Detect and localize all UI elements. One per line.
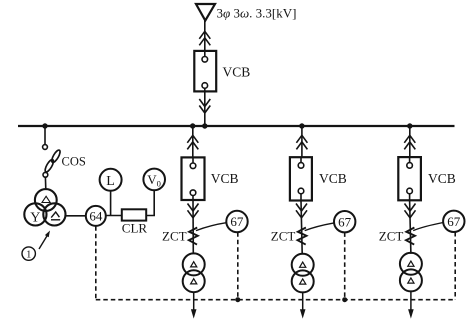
dashed trip bus horizontal (96, 299, 455, 301)
wire incoming line-side (204, 21, 206, 52)
label VCB incoming (223, 65, 251, 80)
wire lamp branch (110, 191, 112, 216)
breaker VCB feeder1 (182, 157, 205, 200)
wire CLR to V0 (146, 190, 154, 215)
wire feeder3 mid (410, 200, 411, 254)
wire left tap down (44, 126, 46, 145)
relay 67 feeder3 (443, 211, 464, 232)
transformer feeder1 (183, 253, 205, 292)
dashed wire relay67 feeder3 (454, 232, 456, 300)
drawout chevrons feeder3 top (404, 135, 415, 149)
wire feeder1 mid (192, 200, 194, 254)
node bus tap feeder1 (190, 123, 195, 128)
drawout chevrons feeder3 bottom (405, 204, 416, 218)
wire feeder1 upper (192, 126, 194, 157)
svg-text:ZCT: ZCT (379, 228, 404, 243)
label ZCT feeder3 (379, 228, 404, 243)
svg-text:VCB: VCB (211, 171, 239, 186)
relay 67 feeder1 (226, 211, 247, 232)
label COS (62, 155, 86, 169)
breaker VCB incoming (194, 51, 216, 92)
svg-text:VCB: VCB (428, 171, 456, 186)
wire 64 to CLR (106, 215, 122, 217)
svg-text:1: 1 (26, 249, 31, 260)
voltmeter V0 (143, 169, 165, 191)
grounding transformer GPT (24, 189, 65, 225)
label ZCT feeder1 (162, 228, 187, 243)
wire feeder2 lower / load arrow (300, 292, 306, 318)
svg-text:COS: COS (62, 155, 86, 169)
dashed wire relay67 feeder1 (237, 232, 239, 300)
transformer feeder3 (400, 253, 422, 292)
svg-text:ZCT: ZCT (162, 228, 187, 243)
drawout chevrons incoming line-side (199, 31, 210, 45)
label VCB feeder1 (211, 171, 239, 186)
svg-text:67: 67 (338, 214, 352, 229)
cutout switch COS (43, 145, 62, 178)
svg-text:3φ 3ω. 3.3[kV]: 3φ 3ω. 3.3[kV] (217, 5, 297, 20)
wire feeder2 upper (301, 126, 303, 157)
drawout chevrons incoming bus-side (199, 99, 210, 113)
wire COS to transformer (44, 177, 46, 189)
wire feeder3 lower / load arrow (408, 291, 414, 318)
node bus tap incoming (202, 123, 207, 128)
wire feeder3 upper (409, 126, 411, 157)
svg-text:L: L (106, 174, 115, 189)
svg-text:CLR: CLR (122, 221, 148, 236)
label VCB feeder3 (428, 171, 456, 186)
svg-text:Y: Y (30, 211, 40, 226)
resistor CLR (122, 209, 146, 220)
drawout chevrons feeder2 top (296, 135, 307, 149)
lamp L (100, 169, 122, 191)
drawout chevrons feeder2 bottom (296, 204, 307, 218)
svg-text:ZCT: ZCT (271, 228, 296, 243)
wire ZCT feeder1 to relay (196, 223, 226, 231)
dashed wire 64 down (95, 226, 97, 300)
wire incoming bus-side (204, 91, 206, 126)
node trip bus feeder2 (342, 297, 347, 302)
label 3phi 3w 3.3kV (217, 5, 297, 20)
wire GPT to 64 (65, 215, 86, 217)
breaker VCB feeder3 (398, 157, 421, 200)
arrow marker 1 to GPT (39, 231, 50, 250)
relay 67 feeder2 (334, 211, 355, 232)
ZCT feeder3 (406, 228, 415, 245)
svg-text:VCB: VCB (223, 65, 251, 80)
drawout chevrons feeder1 bottom (188, 204, 199, 218)
node bus tap left (42, 123, 47, 128)
transformer feeder2 (292, 254, 314, 293)
bus (18, 125, 455, 127)
incoming source triangle (196, 4, 215, 21)
drawout chevrons feeder1 top (187, 135, 198, 149)
svg-text:67: 67 (230, 214, 244, 229)
svg-text:64: 64 (89, 208, 103, 223)
wire ZCT feeder3 to relay (413, 223, 443, 231)
wire feeder1 lower / load arrow (191, 292, 197, 318)
breaker VCB feeder2 (290, 157, 312, 200)
marker 1 (22, 247, 35, 260)
label ZCT feeder2 (271, 228, 296, 243)
ZCT feeder1 (189, 228, 198, 245)
wire feeder2 mid (301, 201, 302, 254)
dashed wire relay67 feeder2 (344, 232, 346, 299)
node trip bus feeder1 (235, 297, 240, 302)
wire ZCT feeder2 to relay (305, 223, 334, 231)
svg-text:VCB: VCB (319, 171, 347, 186)
label CLR (122, 221, 148, 236)
ZCT feeder2 (298, 228, 307, 245)
node bus tap feeder2 (299, 123, 304, 128)
label VCB feeder2 (319, 171, 347, 186)
node bus tap feeder3 (407, 123, 412, 128)
svg-text:67: 67 (447, 214, 461, 229)
relay 64 (86, 206, 106, 226)
